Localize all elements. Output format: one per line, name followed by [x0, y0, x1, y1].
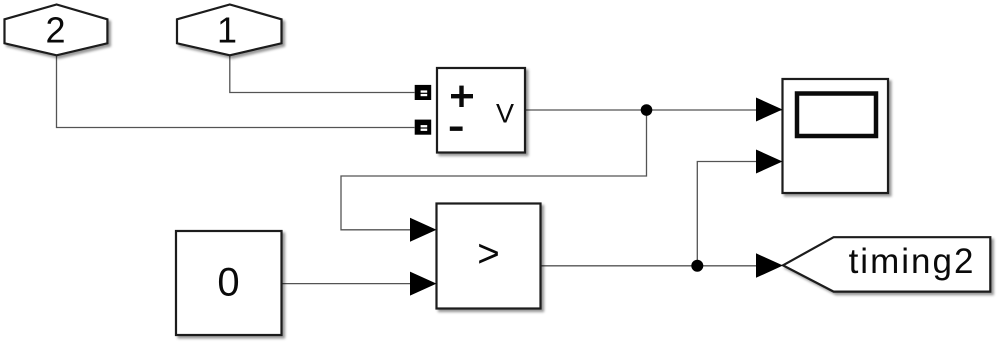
- wire from inport 2 to sum minus input: [57, 55, 415, 128]
- relational input arrowhead 1: [410, 218, 437, 242]
- scope input arrowhead 1: [756, 98, 783, 122]
- inport 1 hexagon: [177, 5, 282, 56]
- constant block body: [176, 231, 282, 335]
- scope block body: [783, 79, 889, 193]
- sum input port square 2: [415, 120, 432, 135]
- goto tag timing2 body: [783, 237, 990, 291]
- sum minus sign: [450, 127, 463, 131]
- wire from inport 1 to sum plus input: [230, 55, 415, 93]
- wire sum output to scope input 1: [525, 109, 782, 111]
- wire constant 0 to relational input 2: [282, 283, 411, 285]
- svg-text:2: 2: [45, 10, 65, 51]
- sum block U1 body: [437, 68, 525, 153]
- sum plus sign: [451, 86, 473, 107]
- node B junction dot: [691, 260, 703, 272]
- relational input arrowhead 2: [410, 272, 437, 296]
- sum input port square 1: [415, 85, 432, 100]
- scope screen: [797, 94, 876, 137]
- svg-text:timing2: timing2: [849, 242, 976, 281]
- svg-text:V: V: [496, 99, 514, 129]
- wire relational output to timing2 tag: [541, 265, 757, 267]
- scope input arrowhead 2: [756, 150, 783, 174]
- svg-text:1: 1: [217, 10, 237, 51]
- wire branch from node A down-left to relational input 1: [341, 110, 647, 230]
- relational operator block body: [437, 204, 541, 309]
- goto tag input arrowhead: [756, 253, 783, 277]
- svg-text:0: 0: [217, 261, 239, 305]
- inport 2 hexagon: [5, 5, 108, 56]
- svg-text:>: >: [477, 233, 499, 276]
- node A junction dot: [641, 104, 653, 116]
- wire branch from node B up to scope input 2: [697, 162, 756, 266]
